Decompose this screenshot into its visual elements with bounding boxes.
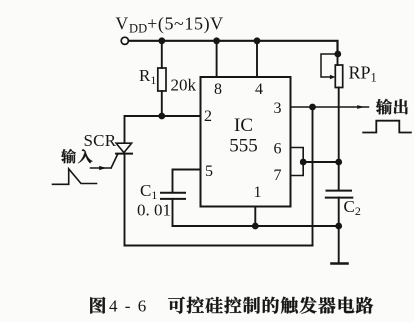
svg-text:C2: C2 — [344, 197, 361, 218]
capacitor C2 — [326, 191, 353, 198]
svg-text:VDD+(5~15)V: VDD+(5~15)V — [116, 14, 224, 36]
resistor R1 — [158, 41, 166, 116]
op-amp/timer IC 555 box — [201, 77, 291, 207]
ground — [332, 262, 348, 265]
svg-text:1: 1 — [254, 184, 262, 201]
wire RP1 top lead — [337, 53, 339, 65]
wire 6-7 junction to C2 line — [303, 161, 339, 163]
junction dot pin 1 — [252, 223, 259, 230]
wire SCR cathode down left side — [124, 154, 126, 246]
label input (shu-ru) — [61, 149, 76, 163]
svg-text:5: 5 — [205, 163, 213, 180]
wire pin 5 to C1 — [173, 170, 201, 192]
wire C1 bottom lead — [172, 199, 174, 226]
wire pins 6-7 bracket — [291, 148, 304, 176]
svg-text:3: 3 — [274, 100, 282, 117]
power terminal VDD — [121, 37, 128, 44]
junction dot RP1 top — [334, 51, 341, 58]
svg-text:7: 7 — [274, 167, 282, 184]
junction dot bottom rail C2 — [335, 223, 342, 230]
wire pin 3 output — [291, 106, 369, 108]
junction dot 6-7 — [300, 159, 307, 166]
output arrowhead — [357, 105, 364, 109]
svg-text:6: 6 — [274, 141, 282, 158]
label output (shu-chu) — [376, 99, 392, 115]
junction dot pin 8 rail — [213, 37, 220, 44]
transistor SCR (thyristor) — [111, 143, 132, 168]
wire top rail from terminal to RP1 corner — [129, 41, 338, 53]
wire pin 4 lead — [256, 41, 258, 77]
capacitor C1 — [161, 193, 185, 199]
svg-text:R1: R1 — [139, 66, 156, 87]
svg-text:4-6: 4-6 — [109, 297, 154, 316]
input pulse waveform — [53, 169, 97, 185]
junction dot R1 top — [158, 37, 165, 44]
junction dot R1 bottom — [158, 113, 165, 120]
svg-text:0. 01: 0. 01 — [137, 201, 171, 220]
junction dot C2 line upper — [335, 159, 342, 166]
svg-text:RP1: RP1 — [349, 63, 377, 85]
output pulse waveform — [363, 121, 411, 133]
potentiometer RP1 — [321, 54, 343, 88]
wire bottom loop rail — [125, 245, 313, 247]
wire bottom rail (pin1/C1/C2) — [173, 225, 339, 227]
junction dot pin 3 — [309, 104, 316, 111]
svg-text:IC: IC — [234, 115, 253, 136]
wire output node vertical — [312, 107, 314, 246]
input arrow — [91, 166, 112, 170]
svg-text:555: 555 — [229, 136, 258, 157]
svg-text:C1: C1 — [140, 181, 157, 202]
wire pin 2 to SCR anode — [125, 116, 201, 143]
svg-text:20k: 20k — [171, 76, 197, 95]
caption figure 4-6 SCR-controlled trigger circuit — [90, 297, 105, 314]
svg-text:SCR: SCR — [84, 131, 117, 150]
wire pin 1 lead — [254, 207, 256, 227]
svg-text:4: 4 — [255, 81, 263, 98]
junction dot pin 4 rail — [254, 37, 261, 44]
wire RP1 bottom to C2 — [338, 88, 340, 190]
svg-text:8: 8 — [214, 81, 222, 98]
wire C2 to ground — [338, 198, 340, 263]
wire pin 8 lead — [216, 41, 218, 77]
svg-text:2: 2 — [204, 108, 212, 125]
